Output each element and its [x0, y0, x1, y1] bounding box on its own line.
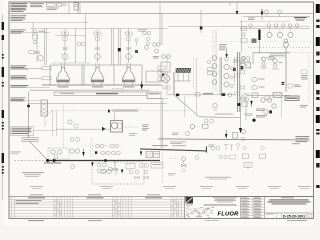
dotted riser x309: [308, 52, 310, 103]
note text centered y176-181: [205, 177, 231, 180]
instrument pair x188-206 y124-135: [172, 124, 208, 135]
inlet label FROM line 2: [11, 76, 52, 80]
gauge rows y144-156: [81, 124, 149, 158]
revision table header text: [28, 197, 162, 198]
small cluster x300-309 y70-80: [301, 70, 308, 79]
analyzer dashed box y148-160: [48, 148, 85, 169]
inlet label FROM line 1: [11, 66, 52, 70]
print info below frame: [28, 220, 307, 221]
label under header x170 y141: [170, 142, 186, 145]
general notes text block: [11, 3, 67, 12]
label box under corner line: [270, 54, 285, 57]
wire: dashed line y110: [52, 109, 190, 111]
wire: thick header y148.5: [140, 147, 206, 153]
label on dashed line: [108, 109, 138, 112]
svg-text:FLUOR: FLUOR: [218, 211, 240, 217]
wire: diagonal drop to manifold: [174, 58, 200, 117]
small boxes x207 y68: [208, 68, 214, 75]
bottom instrument strip: [101, 145, 176, 183]
aftercondenser end box: [146, 66, 165, 82]
instrument row right of header end: [211, 143, 300, 150]
wire: header corner right: [253, 53, 310, 64]
control valve station x178-196: [170, 156, 199, 173]
label FROM left mid: [10, 98, 41, 102]
drain funnel cluster: [244, 163, 252, 171]
line number label under header: [44, 162, 61, 163]
label left of bottom header: [11, 152, 21, 155]
strainer column left: [41, 100, 48, 116]
svg-text:D-25-20-1001: D-25-20-1001: [283, 214, 305, 218]
arrow on header x226: [225, 130, 227, 139]
title block bottom strip: [265, 213, 314, 219]
letdown station cluster: [241, 93, 308, 120]
wire: L-line below band: [174, 72, 191, 95]
wire: note leader line 3: [10, 31, 50, 33]
wire: suction line into blower: [56, 128, 111, 130]
small circles under filter: [162, 86, 170, 90]
left edge fold marks: [2, 22, 4, 174]
arrowhead on riser x237: [236, 11, 239, 15]
valve station under bottom header: [91, 151, 163, 173]
black arrow at end of base line: [140, 81, 143, 90]
vertical x75.5 with gauge pair: [76, 29, 86, 64]
condenser cell walls: [50, 65, 142, 85]
instruments below manifold line: [204, 119, 214, 123]
instrument x77 y124: [68, 120, 80, 142]
wire: vertical pair x161 y98-148: [161, 98, 162, 148]
instrument column x212: [207, 30, 217, 92]
black dot x254 y120: [244, 114, 256, 122]
temperature instrument TI double: [283, 39, 288, 47]
FLUOR logo: [215, 207, 241, 219]
package label: [60, 93, 118, 94]
column C-101 shell: [233, 52, 245, 112]
small text right of header end: [209, 145, 215, 148]
ejector J-101C: [122, 63, 135, 87]
TO flare label right: [296, 136, 310, 142]
blower package K-101: [102, 113, 137, 132]
wire: top header line: [9, 13, 313, 15]
sample station x219-231 y155: [219, 155, 235, 159]
black valve bar x259: [258, 30, 260, 54]
instrument bubble x263.5: [261, 57, 267, 69]
station right x143-151: [135, 31, 151, 53]
wire: vertical utility drops from top: [33, 2, 237, 63]
stacked instrument x275 y59-67: [272, 59, 283, 70]
data columns labels: [241, 197, 265, 219]
wire: distribution header y28.5: [30, 29, 168, 32]
wire: secondary base line y90: [30, 89, 150, 91]
equipment tag box left: [22, 138, 38, 142]
wire: subheader right: [168, 25, 310, 27]
wire: note leader line 2: [10, 21, 88, 23]
filter vessel F-101: [161, 55, 170, 83]
flow arrow on bottom header: [46, 159, 57, 163]
labels above thick header: [152, 145, 186, 146]
mid manifold cluster: [168, 93, 249, 133]
wire: vertical x167: [166, 56, 168, 96]
mini instruments right x252-258 y78-90: [251, 78, 264, 90]
revision check marks diagonals: [54, 199, 179, 216]
small labels x248 y17.5: [248, 18, 255, 20]
wire: header line y103.5: [29, 103, 168, 105]
side station x31-43: [28, 30, 44, 62]
wire: main bottom header y160.5 thick: [14, 160, 160, 162]
ladder risers: [45, 28, 121, 65]
junction: black diamond x233.5 y69: [233, 60, 236, 85]
valve boxes below header right: [243, 146, 266, 158]
signature scribble area: [186, 207, 215, 218]
condenser cell box top: [50, 63, 142, 65]
wire: verticals x52 x56 x63: [53, 104, 64, 149]
P+ID numbers above table: [30, 194, 160, 195]
wire: process header y139.5: [158, 139, 303, 140]
wire: left riser x28.5: [29, 92, 48, 160]
ejector feed stations: [61, 29, 132, 64]
wire: solid vertical pair x220: [220, 57, 222, 95]
small box x112-123 y89-92: [112, 89, 123, 92]
instrument column x228: [224, 57, 234, 87]
title block outline: [185, 197, 314, 219]
separator line under address: [203, 204, 238, 205]
wire: leader from note box: [34, 111, 57, 131]
wire: riser x286: [285, 48, 287, 92]
notes block 3: [11, 30, 26, 34]
packing hatched band: [176, 68, 191, 72]
inline silencer: [268, 56, 275, 60]
faint continuation row y186-190: [30, 186, 311, 189]
junction: black diamond on riser: [200, 27, 203, 30]
junction dot on bottom header x105.5: [104, 159, 107, 162]
package boundary strip: [54, 92, 168, 98]
wire: line y35.7: [55, 35, 86, 37]
exchanger drum right of column: [241, 57, 251, 68]
labels right x288 y84: [288, 84, 301, 88]
junction: black diamond x119 y49: [118, 48, 121, 51]
left cluster x241-248: [241, 20, 257, 52]
ejector J-101A: [57, 63, 70, 87]
company address lines: [213, 197, 237, 202]
revision entries text: [16, 200, 42, 204]
instruments on header x233-247: [233, 130, 246, 141]
ejector J-101B: [91, 63, 104, 87]
drawing title text: [268, 197, 311, 204]
station right x153-159: [153, 43, 161, 59]
dotted header to flare: [248, 47, 310, 49]
client logo emblem: [186, 197, 194, 205]
left paper edge line: [2, 14, 4, 200]
revision table: [9, 197, 313, 219]
black valve x283 y83: [281, 82, 285, 85]
tall legend box top: [74, 3, 79, 10]
junction dot x28.5 y106: [27, 105, 30, 108]
equipment title labels y172-178: [22, 172, 44, 177]
note box left mid: [11, 127, 34, 136]
spare header dashed x213: [219, 44, 228, 58]
wire: base header line y85: [42, 84, 162, 86]
wire: line y87 left: [9, 86, 50, 88]
instrument row right y31: [240, 24, 310, 38]
skid dashed boundary box: [92, 162, 144, 184]
inlet label FROM line 3: [11, 85, 29, 87]
right edge fold marks: [316, 4, 320, 188]
dotted line y41.5: [214, 41, 310, 43]
notes block 2: [11, 15, 27, 21]
instrument cluster top right: [240, 9, 310, 22]
package end box: [147, 92, 161, 98]
